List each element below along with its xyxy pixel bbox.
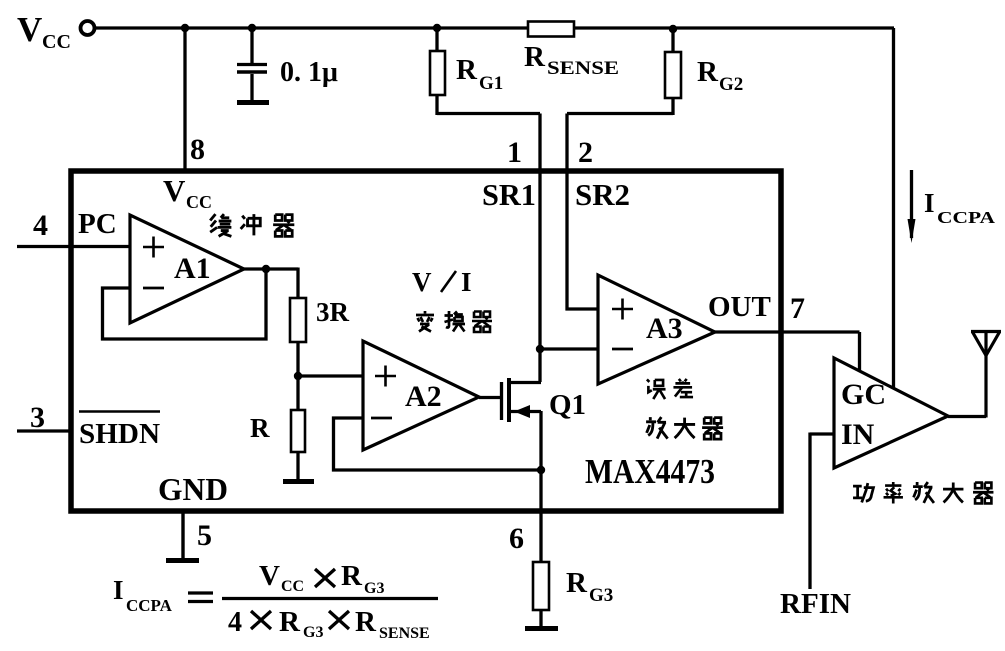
wire: RFIN input [810,433,834,590]
antenna [971,332,1001,356]
ground: below R [283,479,314,484]
svg-text:CC: CC [281,578,304,595]
wire: pin 3 stub [17,429,71,432]
wire: SR1 vertical into IC to Q1 drain node [538,114,541,383]
svg-text:A1: A1 [174,252,211,285]
ground: pin 5 ground bar [166,558,199,563]
svg-text:R: R [524,41,546,73]
svg-text:SR2: SR2 [575,177,630,212]
wire: pin 4 input [17,245,130,248]
svg-text:3: 3 [30,401,45,434]
wire: 3R to R divider [296,342,299,410]
svg-text:RFIN: RFIN [780,589,851,620]
wire: top supply rail [94,26,894,29]
svg-text:PC: PC [78,208,117,240]
svg-text:4: 4 [228,607,242,638]
wire: Q1 source down to RG3 [539,411,542,562]
wire: A1 feedback loop [103,269,267,339]
node: A1 output [262,265,270,273]
label: power amplifier caption (gong lv fang da qi) [853,482,993,503]
current arrow ICCPA [910,170,913,238]
wire: tap to A2 plus input [298,374,363,377]
ground: capacitor ground bar [237,100,269,105]
label RG2 [697,56,743,95]
ground: below RG3 [525,626,558,631]
label SHDN with overline [79,412,160,451]
label RSENSE [524,41,619,79]
wire: RG2 bottom to SR2 [567,112,673,115]
label: V/I converter caption (bian huan qi) [416,311,492,332]
wire: A2 feedback to source node [334,418,542,470]
svg-text:IN: IN [841,418,875,451]
svg-text:G3: G3 [303,624,323,641]
svg-text:R: R [355,606,377,638]
svg-text:A3: A3 [646,312,683,345]
wire: R to ground [296,452,299,479]
svg-text:8: 8 [190,133,205,166]
svg-text:CC: CC [186,192,212,212]
svg-text:R: R [250,413,270,443]
label: error (wu cha) [647,379,693,399]
label: buffer caption (huan chong qi) [210,214,294,236]
label RG3 [566,567,613,606]
node: RG1 junction [433,24,441,32]
wire: node to A3 minus input [540,347,598,350]
svg-text:I: I [924,188,935,218]
svg-text:R: R [341,560,363,592]
svg-text:G1: G1 [479,73,503,94]
svg-text:5: 5 [197,519,212,552]
svg-text:SENSE: SENSE [379,625,430,642]
svg-text:G3: G3 [589,585,613,606]
svg-text:2: 2 [578,136,593,169]
svg-text:6: 6 [509,522,524,555]
wire: RG1 bottom to SR1 [437,112,540,115]
node: divider tap [294,372,302,380]
node: Q1 drain / A3 minus junction [536,345,544,353]
wire: A1 output to 3R [244,268,298,299]
label RG1 [456,54,503,94]
node: pin8 junction [181,24,189,32]
svg-text:OUT: OUT [708,291,771,323]
svg-text:4: 4 [33,209,48,242]
svg-text:I: I [113,575,124,605]
svg-text:Q1: Q1 [549,389,586,421]
Vcc supply label [17,10,71,53]
svg-text:MAX4473: MAX4473 [585,452,715,491]
resistor RG3 [533,562,549,626]
power amplifier PA [834,358,948,468]
node: Q1 source junction [537,466,545,474]
svg-text:GND: GND [158,471,228,507]
resistor 3R [290,298,306,342]
wire: pin 5 to ground [181,511,184,558]
op-amp A2 [363,341,479,450]
svg-text:SHDN: SHDN [79,418,160,450]
svg-text:R: R [456,54,478,86]
node: capacitor junction [248,24,256,32]
wire: right rail down to power amp [892,28,895,389]
svg-text:CC: CC [42,31,71,53]
svg-text:V: V [163,173,186,208]
resistor RG1 [430,28,445,115]
capacitor C1 0.1u [237,28,267,100]
label Vcc pin name [163,173,212,212]
wire: A2 output to Q1 gate [479,396,500,399]
svg-text:R: R [566,567,588,599]
formula I_CCPA equation [113,560,438,642]
svg-text:V: V [259,560,280,592]
svg-text:R: R [697,56,719,88]
IC box MAX4473 [71,171,781,511]
resistor R [291,410,305,452]
wire: pin 8 drop to IC [183,28,186,171]
op-amp A3 [598,275,715,384]
svg-text:G3: G3 [364,580,384,597]
transistor Q1 [502,378,542,422]
node: RG2 junction [669,25,677,33]
wire: SR2 vertical into IC [566,114,599,311]
svg-text:GC: GC [841,378,886,411]
svg-text:I: I [461,267,472,297]
svg-text:R: R [279,606,301,638]
svg-text:G2: G2 [719,74,743,95]
label V/I converter caption [412,267,472,297]
resistor RSENSE [528,22,574,37]
svg-text:SR1: SR1 [482,177,536,212]
Vcc input terminal [81,21,95,35]
svg-text:CCPA: CCPA [126,596,173,615]
svg-text:3R: 3R [316,297,350,327]
svg-text:1: 1 [507,136,522,169]
label ICCPA [924,188,996,227]
svg-text:CCPA: CCPA [937,208,996,227]
svg-text:A2: A2 [405,380,442,413]
wire: PA output to antenna [948,332,986,418]
svg-text:0. 1μ: 0. 1μ [280,57,338,88]
op-amp A1 [130,215,244,323]
svg-text:7: 7 [790,292,805,325]
svg-text:V: V [17,10,42,49]
svg-text:V: V [412,267,432,297]
resistor RG2 [665,29,681,115]
label: amplifier (fang da qi) [646,417,723,439]
wire: A3 output to pin7 and PA [715,332,860,372]
svg-text:SENSE: SENSE [547,58,619,79]
